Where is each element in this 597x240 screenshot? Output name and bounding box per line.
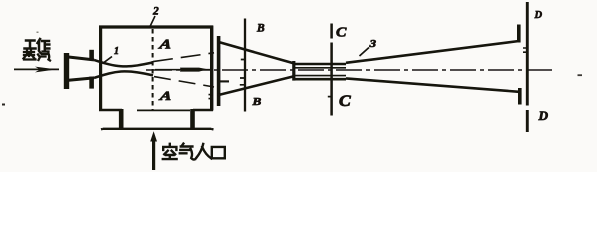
steam pipe bottom wall — [69, 78, 95, 80]
diffuser 3 bottom wall — [346, 78, 519, 91]
svg-text:A: A — [158, 89, 173, 103]
nozzle mounting flange lower half — [89, 77, 94, 89]
air inlet neck left wall — [119, 109, 124, 129]
throat tube outer top wall — [294, 63, 346, 66]
label text 空气入口 (air inlet) — [163, 144, 225, 160]
jet boundary lower (dashed) — [154, 77, 214, 87]
suction chamber right wall — [210, 26, 213, 111]
section line A-A (vertical dashed through chamber) — [152, 29, 154, 110]
B-B line hatch ticks — [240, 60, 245, 85]
label text 蒸汽 (steam) — [24, 51, 51, 61]
svg-text:3: 3 — [368, 37, 376, 49]
steam inlet pipe flange — [64, 53, 69, 89]
diffuser exit flange tick top — [517, 25, 521, 43]
suction chamber bottom wall right segment — [193, 109, 213, 112]
svg-text:B: B — [251, 95, 261, 108]
section line D-D — [526, 2, 529, 132]
svg-text:A: A — [157, 37, 172, 51]
D-D line hatch ticks — [523, 48, 527, 52]
throat tube inner bottom wall — [294, 75, 346, 77]
scan speckle right — [578, 74, 583, 76]
leader line for label 2 — [150, 16, 155, 27]
throat tube inner top wall — [294, 67, 346, 69]
leader line for label 1 — [104, 57, 113, 63]
scan speckle left edge — [2, 104, 5, 106]
steam pipe top wall — [69, 57, 95, 60]
svg-text:D: D — [534, 10, 543, 21]
svg-text:B: B — [256, 23, 265, 35]
svg-text:C: C — [336, 25, 347, 40]
section line B-B — [244, 19, 246, 112]
air inlet opening far edge — [137, 109, 190, 111]
mixing cone inlet flange — [217, 36, 221, 106]
nozzle 1 converging-diverging profile top — [94, 60, 153, 67]
section line C-C — [330, 24, 333, 116]
air inlet neck right wall — [190, 109, 195, 129]
svg-text:2: 2 — [152, 6, 159, 18]
mixing cone top wall — [220, 42, 294, 63]
svg-text:1: 1 — [114, 46, 119, 57]
axial flow arrow inside chamber — [155, 68, 211, 72]
svg-text:C: C — [339, 91, 351, 109]
label text 工作 (working) — [25, 39, 50, 50]
svg-text:D: D — [537, 109, 548, 122]
jet boundary upper (dashed) — [153, 53, 214, 62]
nozzle mounting flange upper half — [89, 50, 94, 60]
suction chamber left wall — [99, 26, 102, 111]
diffuser exit flange tick bottom — [518, 88, 522, 105]
working steam flow arrow — [14, 67, 59, 73]
centerline (dash-dot axis of ejector) — [146, 69, 555, 71]
air inlet bottom flange plate — [101, 128, 214, 131]
C-C line hatch tick — [328, 96, 331, 98]
nozzle 1 converging-diverging profile bottom — [94, 71, 153, 77]
throat entrance flange — [292, 61, 295, 81]
scan speckle above text — [37, 32, 39, 34]
leader line for label 3 — [360, 48, 370, 57]
air inlet arrow — [150, 131, 157, 170]
suction chamber 2 top wall — [99, 25, 213, 28]
throat tube outer bottom wall — [294, 78, 346, 81]
cone flange tick — [220, 80, 229, 82]
mixing cone bottom wall — [218, 76, 295, 95]
diffuser 3 top wall — [346, 41, 519, 63]
suction chamber bottom wall left segment — [99, 109, 122, 112]
chamber right wall hatch ticks — [209, 95, 214, 99]
